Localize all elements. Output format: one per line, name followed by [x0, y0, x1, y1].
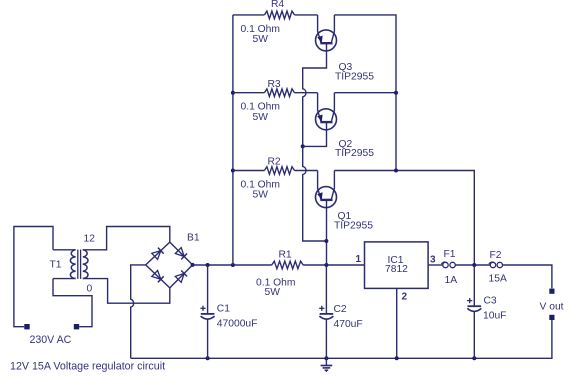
terminal V out -	[549, 315, 554, 320]
svg-text:TIP2955: TIP2955	[335, 72, 374, 83]
svg-text:V out: V out	[540, 302, 564, 313]
svg-text:12: 12	[84, 234, 96, 245]
wire : C1 leads	[207, 265, 209, 358]
transformer T1	[53, 250, 88, 279]
resistor R1	[272, 261, 304, 269]
wire : IC1 pin3 to F1	[428, 264, 443, 266]
wire : primary bottom lead to right terminal	[53, 279, 92, 327]
wire : Q1 collector run to output bus	[334, 171, 474, 266]
svg-text:R2: R2	[268, 157, 281, 168]
svg-text:47000uF: 47000uF	[217, 319, 258, 330]
node Q2 base junction	[301, 144, 305, 148]
svg-text:10uF: 10uF	[483, 311, 506, 322]
svg-text:T1: T1	[50, 260, 62, 271]
wire : C2 leads	[325, 265, 327, 358]
node C2 ground	[324, 356, 328, 360]
svg-text:TIP2955: TIP2955	[335, 148, 374, 159]
svg-text:C1: C1	[217, 304, 230, 315]
wire : rail R1 to IC1 pin1	[303, 264, 364, 266]
node bridge plus	[191, 263, 195, 267]
bridge rectifier B1	[146, 242, 193, 288]
wire : bridge minus down to ground rail (hop over secondary wire)	[131, 265, 146, 358]
svg-text:1: 1	[356, 254, 362, 265]
transistor Q3 TIP2955	[316, 15, 337, 51]
wire : R4 row left	[233, 14, 265, 16]
transistor Q2 TIP2955	[316, 93, 337, 130]
wire : secondary top lead to bridge top	[83, 227, 170, 250]
terminal 230V AC left	[24, 324, 29, 329]
fuse F2	[489, 262, 503, 268]
node C1 ground	[206, 356, 210, 360]
wire : R4 to Q3 emitter	[295, 14, 318, 16]
svg-text:5W: 5W	[253, 190, 269, 201]
terminal 230V AC right	[74, 324, 79, 329]
svg-text:C2: C2	[334, 304, 347, 315]
wire : 230V left loop	[14, 227, 53, 327]
wire : C3 leads	[473, 265, 475, 358]
wire : R3 to Q2 emitter	[295, 92, 318, 94]
node Q2 collector junction	[394, 91, 398, 95]
wire : Q1 base down to rail	[326, 200, 328, 265]
svg-text:1A: 1A	[445, 275, 458, 286]
node left bus junction	[231, 263, 235, 267]
resistor R3	[264, 89, 294, 97]
svg-text:5W: 5W	[253, 112, 269, 123]
wire : Q3 base down-left to base bus	[303, 44, 327, 147]
node pin2 ground	[395, 356, 399, 360]
svg-text:3: 3	[430, 255, 436, 266]
wire : Vout minus to ground rail	[131, 320, 552, 358]
svg-text:0: 0	[87, 284, 93, 295]
wire : R3 row left	[233, 92, 265, 94]
svg-text:12V 15A Voltage regulator circ: 12V 15A Voltage regulator circuit	[10, 361, 165, 373]
wire : R2 to Q1 emitter	[295, 170, 318, 172]
node R2 row	[231, 169, 235, 173]
svg-text:R1: R1	[279, 250, 292, 261]
fuse F1	[441, 262, 455, 268]
svg-text:5W: 5W	[253, 34, 269, 45]
svg-text:TIP2955: TIP2955	[334, 221, 373, 232]
svg-text:F2: F2	[490, 250, 502, 261]
node C3 ground	[472, 356, 476, 360]
wire : Q2 collector run to bus	[334, 92, 396, 94]
capacitor C2	[319, 304, 363, 330]
svg-text:470uF: 470uF	[334, 319, 363, 330]
svg-text:R4: R4	[271, 0, 284, 10]
wire : Q2 base down-left to base bus	[303, 123, 327, 147]
wire : F2 to Vout	[503, 265, 552, 288]
node base bus junction on rail	[324, 263, 328, 267]
svg-text:15A: 15A	[489, 274, 507, 285]
svg-text:2: 2	[402, 292, 408, 303]
transistor Q1 TIP2955	[316, 171, 337, 208]
resistor R2	[264, 167, 294, 175]
IC regulator IC1 7812	[365, 242, 429, 289]
svg-text:B1: B1	[187, 233, 200, 244]
svg-text:R3: R3	[268, 79, 281, 90]
svg-text:230V AC: 230V AC	[30, 334, 72, 346]
capacitor C1	[200, 304, 257, 330]
wire : secondary bottom lead to bridge bottom	[83, 279, 170, 304]
wire : IC1 pin2 to ground rail	[396, 288, 398, 358]
svg-text:5W: 5W	[265, 287, 281, 298]
terminal V out +	[549, 289, 554, 294]
capacitor C3	[467, 296, 506, 322]
node R3 row	[231, 91, 235, 95]
wire : main input rail with R1	[193, 264, 272, 266]
node collector bus junction	[394, 169, 398, 173]
node output bus junction	[472, 263, 476, 267]
wire : F1 to F2	[455, 264, 490, 266]
wire : R2 row left	[233, 170, 265, 172]
wire : left input bus	[232, 15, 234, 265]
node C1 junction	[206, 263, 210, 267]
resistor R4	[264, 11, 294, 19]
wire : Q3 collector top run	[334, 15, 396, 171]
node base bus to Q1 base	[324, 239, 328, 243]
svg-text:C3: C3	[484, 296, 497, 307]
ground	[321, 358, 333, 372]
wire : base bus down (hop over R2 row)	[303, 146, 327, 241]
svg-text:F1: F1	[444, 249, 456, 260]
svg-text:7812: 7812	[385, 264, 408, 275]
